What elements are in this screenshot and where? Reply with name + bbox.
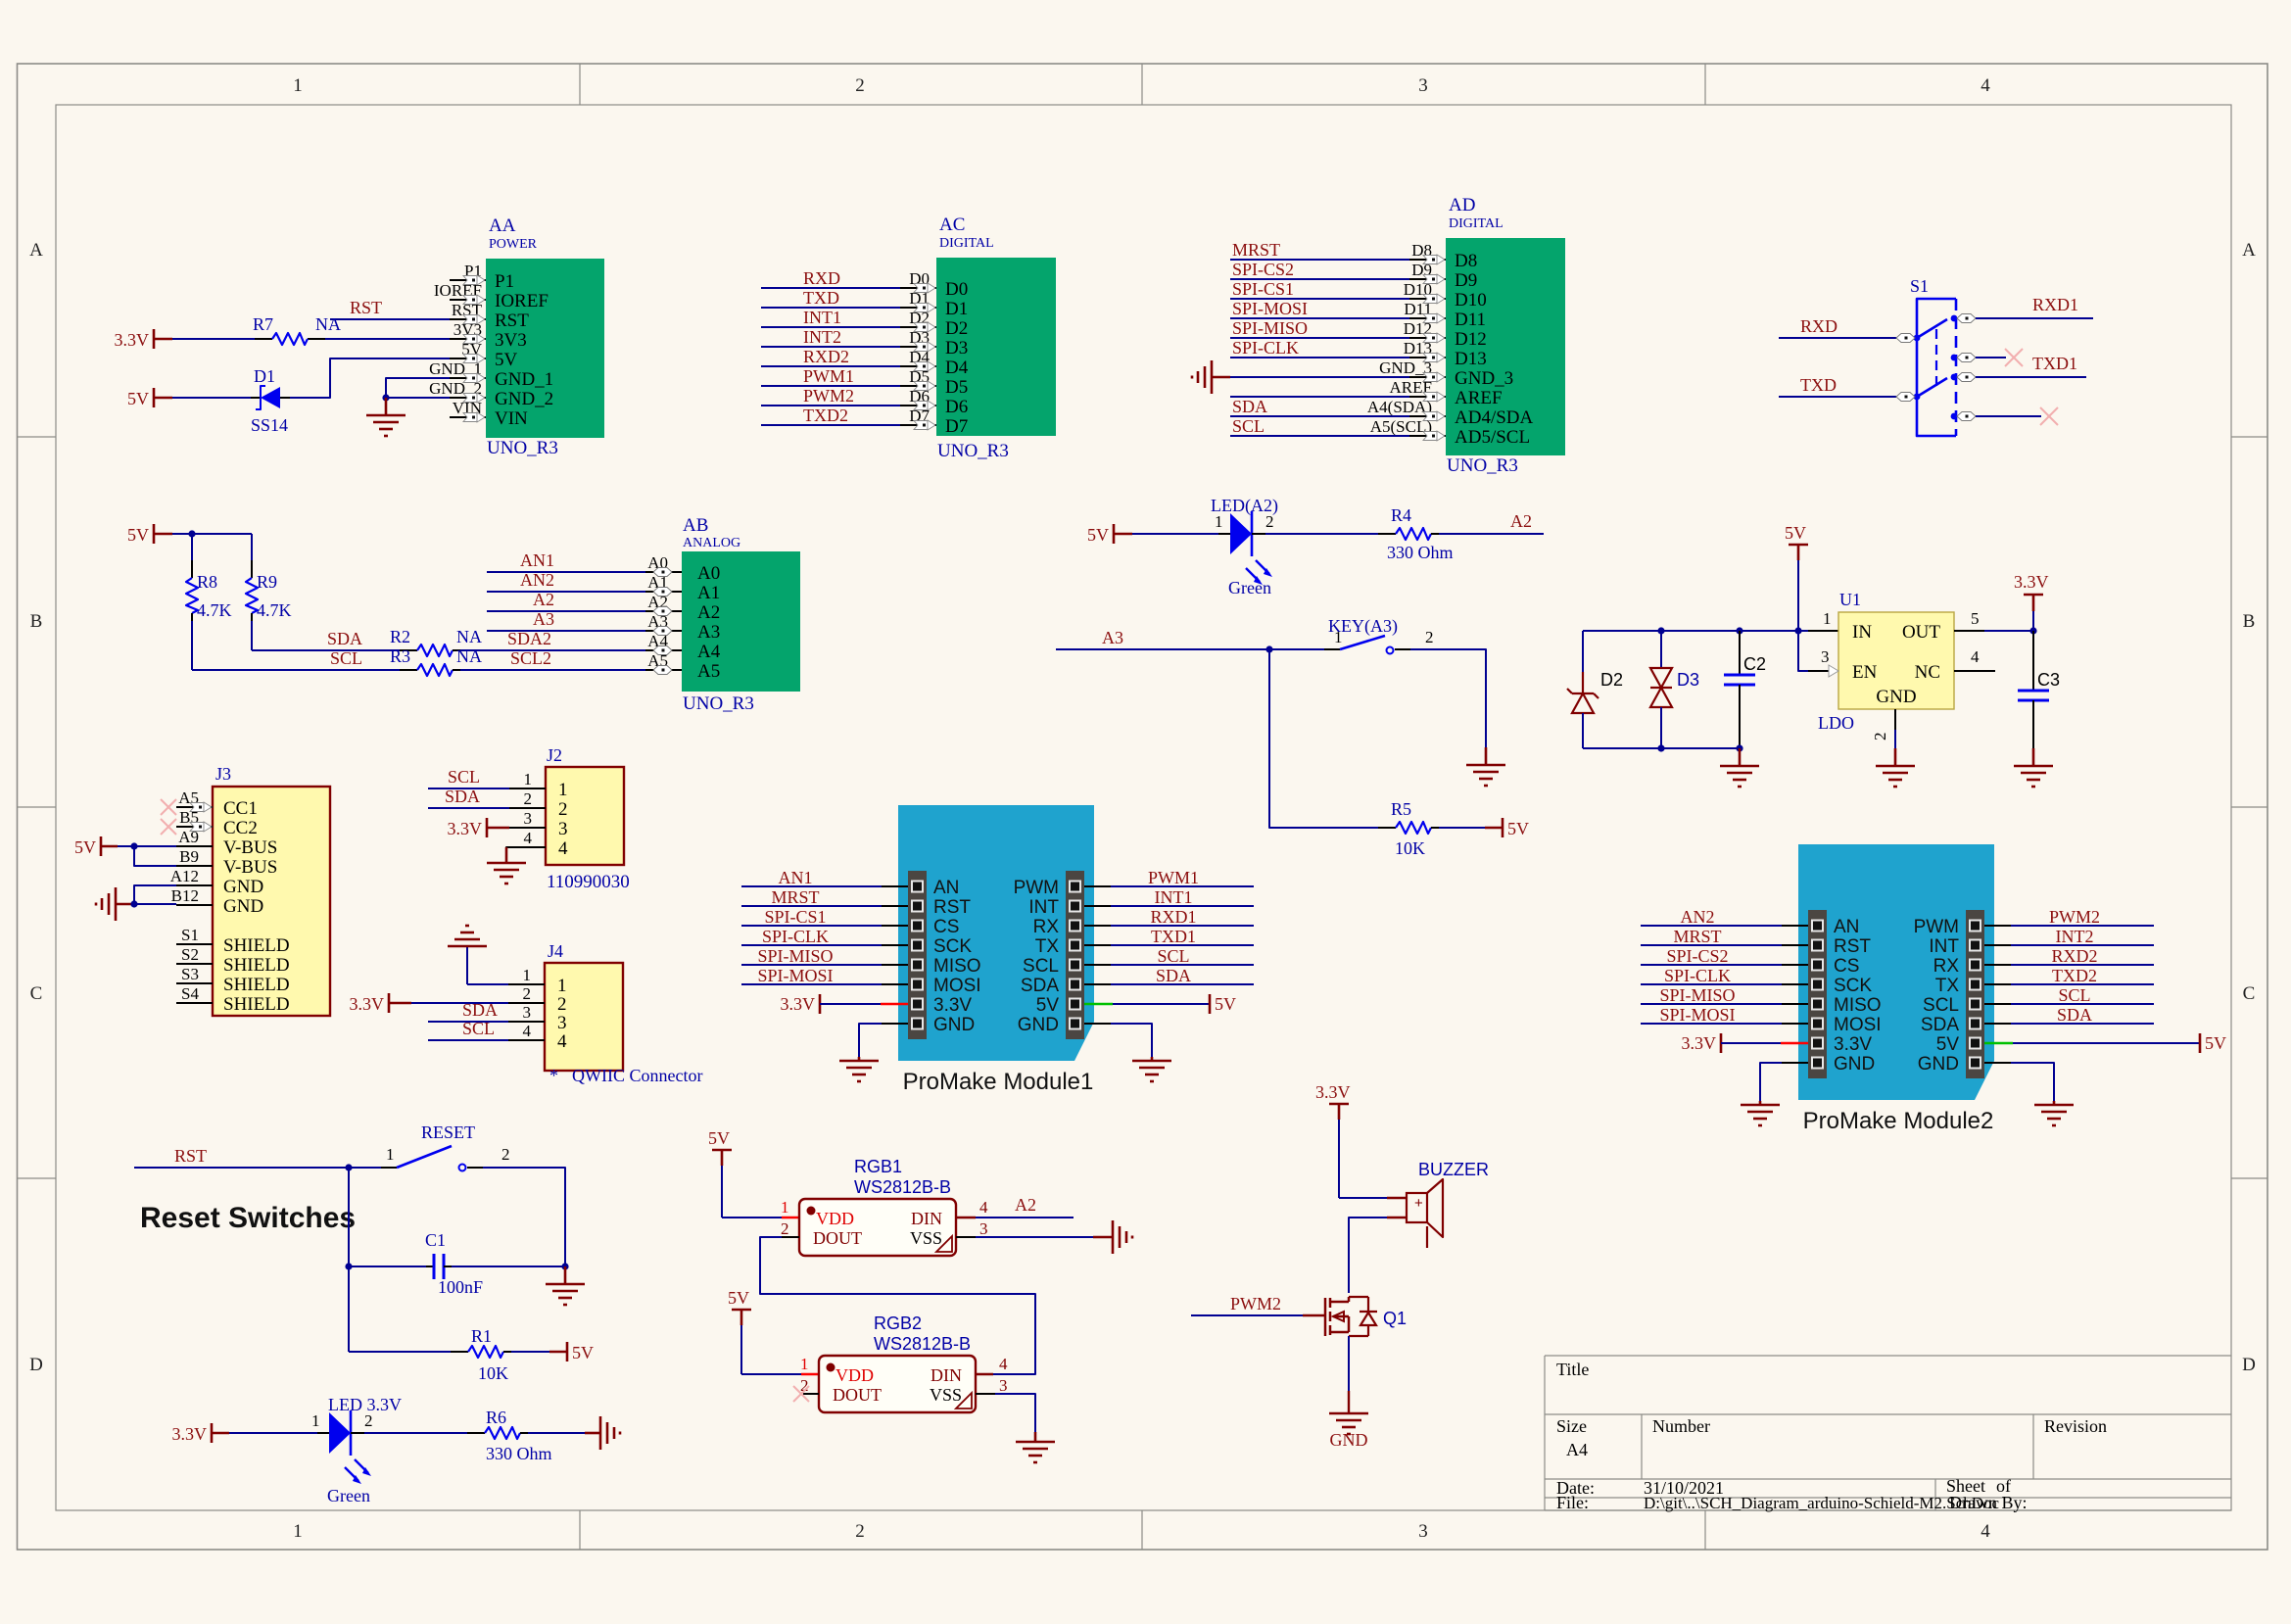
svg-text:R8: R8 (197, 572, 217, 592)
power port 5V (pullups) (127, 524, 172, 545)
power port 5V (Module2) (2200, 1033, 2226, 1053)
wire RST down to R1 (348, 1266, 350, 1352)
svg-text:UNO_R3: UNO_R3 (937, 441, 1009, 461)
wire R6 to earth (520, 1432, 528, 1434)
svg-text:3: 3 (979, 1219, 988, 1238)
svg-text:J2: J2 (547, 745, 562, 765)
svg-text:D2: D2 (1600, 670, 1623, 690)
svg-text:A3: A3 (1102, 628, 1123, 647)
svg-text:A4: A4 (1566, 1440, 1588, 1459)
svg-text:DOUT: DOUT (833, 1385, 882, 1405)
svg-text:3.3V: 3.3V (115, 330, 150, 350)
svg-text:3V3: 3V3 (495, 330, 527, 351)
svg-text:SPI-CLK: SPI-CLK (762, 927, 829, 946)
svg-text:1: 1 (1334, 628, 1343, 646)
svg-text:SDA2: SDA2 (507, 629, 551, 648)
junction A3/R5 (1265, 645, 1272, 652)
power port 3.3V (J4) (350, 993, 412, 1014)
svg-text:SPI-CS1: SPI-CS1 (1232, 279, 1294, 299)
svg-text:INT: INT (1929, 936, 1959, 957)
svg-text:D8: D8 (1455, 251, 1477, 271)
svg-text:1: 1 (293, 75, 303, 96)
svg-text:TXD2: TXD2 (2052, 966, 2097, 985)
wire 3.3V to Module1 (820, 1003, 881, 1005)
svg-text:1: 1 (781, 1198, 789, 1217)
svg-text:4: 4 (999, 1355, 1008, 1373)
svg-text:SDA: SDA (462, 1000, 498, 1020)
svg-text:TXD: TXD (803, 288, 839, 308)
wire 3.3V to Module2 (1721, 1042, 1781, 1044)
svg-text:POWER: POWER (489, 237, 538, 252)
svg-text:RX: RX (1033, 917, 1060, 937)
svg-text:MISO: MISO (1834, 995, 1882, 1016)
wire KEY to GND (1395, 648, 1410, 650)
svg-text:AN2: AN2 (1681, 907, 1715, 927)
svg-text:VSS: VSS (910, 1228, 942, 1248)
svg-text:3.3V: 3.3V (350, 994, 385, 1014)
wire GND A12 (134, 885, 176, 904)
resistor R2 (NA) (390, 627, 482, 656)
wire SPI-MISO to Module2 (1641, 1003, 1782, 1005)
svg-text:WS2812B-B: WS2812B-B (854, 1177, 951, 1197)
connector J2 110990030 (509, 745, 630, 892)
earth ground symbol (R6) (599, 1416, 602, 1450)
svg-text:2: 2 (558, 799, 568, 820)
svg-text:4.7K: 4.7K (197, 600, 232, 620)
svg-text:GND_3: GND_3 (1455, 368, 1513, 389)
svg-text:A2: A2 (533, 590, 554, 609)
svg-text:LDO: LDO (1818, 713, 1854, 733)
wire 5V to RGB2 VDD (740, 1325, 742, 1374)
no-connect X (RGB2 DOUT) (803, 1393, 819, 1395)
wire AN2 to AB A1 (487, 591, 645, 593)
svg-text:SPI-CS2: SPI-CS2 (1666, 946, 1728, 966)
wire 5V to RGB1 VDD (721, 1166, 723, 1218)
wire SCL to AD (1230, 435, 1409, 437)
svg-text:INT1: INT1 (1155, 887, 1193, 907)
wire TXD1 from Module1 (1084, 944, 1111, 946)
switch KEY(A3) (1328, 616, 1434, 654)
wire GND_3 (1212, 376, 1409, 378)
wire SPI-MISO to Module1 (741, 964, 882, 966)
svg-text:4: 4 (979, 1198, 988, 1217)
svg-text:D1: D1 (945, 299, 968, 319)
svg-text:SHIELD: SHIELD (223, 935, 290, 956)
wire SCL to R3 (192, 669, 409, 671)
wire SPI-CS1 to AD (1230, 298, 1409, 300)
wire SPI-MOSI to AD (1230, 317, 1409, 319)
svg-text:5: 5 (1971, 609, 1980, 628)
svg-text:R2: R2 (390, 627, 410, 646)
svg-text:GND: GND (1918, 1054, 1959, 1075)
svg-text:5V: 5V (74, 837, 96, 857)
svg-text:1: 1 (1215, 512, 1223, 531)
svg-text:5V: 5V (127, 525, 149, 545)
svg-text:4: 4 (1981, 1521, 1990, 1542)
voltage regulator U1 LDO (1818, 590, 1980, 740)
svg-text:A3: A3 (697, 622, 720, 643)
svg-text:WS2812B-B: WS2812B-B (874, 1334, 971, 1354)
svg-text:1: 1 (524, 770, 533, 788)
wire SDA to J4 pin3 (428, 1021, 508, 1023)
wire SPI-CS1 to Module1 (741, 925, 882, 927)
svg-text:RXD1: RXD1 (1150, 907, 1196, 927)
wire RGB2 VSS to GND (976, 1393, 995, 1395)
svg-text:AC: AC (939, 215, 965, 235)
svg-text:3: 3 (523, 1003, 532, 1022)
svg-text:SCL: SCL (1923, 995, 1959, 1016)
module ProMake Module1 (898, 805, 1094, 1095)
wire 5V pullup rail (172, 533, 252, 535)
svg-text:D11: D11 (1455, 310, 1486, 330)
svg-text:PWM: PWM (1014, 878, 1059, 898)
junction D3 bottom (1657, 744, 1664, 751)
svg-text:2: 2 (1265, 512, 1274, 531)
svg-text:SPI-CLK: SPI-CLK (1664, 966, 1731, 985)
svg-text:TXD2: TXD2 (803, 406, 848, 425)
wire A2 from R4 (1431, 533, 1439, 535)
svg-text:3: 3 (1418, 75, 1428, 96)
wire D1 to 5V pin (290, 358, 450, 398)
wire PWM2 from Module2 (1984, 925, 2011, 927)
svg-text:SPI-MISO: SPI-MISO (1659, 985, 1735, 1005)
svg-text:S1: S1 (1910, 276, 1929, 296)
svg-text:A: A (29, 240, 43, 261)
connector J3 (USB-C) (170, 764, 330, 1016)
wire 5V to Module2 (1984, 1042, 2013, 1044)
wire SDA to AD (1230, 415, 1409, 417)
svg-text:100nF: 100nF (438, 1277, 483, 1297)
capacitor C2 (1724, 631, 1766, 748)
capacitor C3 (2018, 631, 2060, 748)
power port 3.3V (LDO out) (2014, 572, 2049, 611)
wire RGB1 VSS to earth (956, 1236, 976, 1238)
earth ground symbol (RGB1) (1112, 1220, 1115, 1254)
wire GND to J4 pin1 (467, 983, 508, 985)
svg-text:QWIIC Connector: QWIIC Connector (572, 1066, 702, 1085)
wire input rail (1583, 630, 1808, 632)
svg-text:U1: U1 (1839, 590, 1861, 609)
svg-text:AN1: AN1 (779, 868, 813, 887)
power port 5V (R1) (549, 1342, 594, 1362)
wire MRST to Module1 (741, 905, 882, 907)
svg-text:3.3V: 3.3V (1315, 1082, 1351, 1102)
ground symbol (Q1) (1329, 1413, 1368, 1450)
svg-text:A12: A12 (170, 867, 199, 885)
svg-text:INT1: INT1 (803, 308, 841, 327)
svg-text:Title: Title (1556, 1360, 1589, 1379)
sheet symbol AD UNO_R3 DIGITAL (1367, 195, 1565, 476)
wire RST down to C1 (348, 1168, 350, 1266)
wire AN2 to Module2 (1641, 925, 1782, 927)
ground symbol (C2) (1720, 748, 1759, 787)
power port 5V (D1) (127, 388, 172, 408)
svg-text:A2: A2 (1510, 511, 1532, 531)
svg-text:NC: NC (1915, 662, 1940, 683)
wire SCL from Module1 (1084, 964, 1111, 966)
svg-text:2: 2 (501, 1145, 510, 1164)
svg-text:VDD: VDD (816, 1209, 854, 1228)
svg-text:PWM2: PWM2 (2049, 907, 2100, 927)
wire RXD2 from Module2 (1984, 964, 2011, 966)
wire SPI-MISO to AD (1230, 337, 1409, 339)
svg-text:R7: R7 (253, 314, 273, 334)
wire OUT to 3.3V (1954, 630, 1984, 632)
svg-text:RESET: RESET (421, 1122, 475, 1142)
svg-text:IN: IN (1852, 622, 1872, 643)
wire V-BUS B9 (134, 846, 176, 866)
svg-text:SPI-CS2: SPI-CS2 (1232, 260, 1294, 279)
ground symbol (Module1 right) (1132, 1057, 1171, 1081)
wire 5V to V-BUS (118, 845, 176, 847)
resistor R1 10K (451, 1326, 521, 1383)
svg-text:RXD2: RXD2 (803, 347, 849, 366)
wire 3.3V to J4 pin2 (411, 1002, 508, 1004)
svg-text:3: 3 (999, 1376, 1008, 1395)
svg-text:INT2: INT2 (803, 327, 841, 347)
svg-text:10K: 10K (478, 1363, 508, 1383)
svg-text:AD4/SDA: AD4/SDA (1455, 407, 1534, 428)
svg-text:2: 2 (1871, 733, 1889, 741)
wire AREF stub (1230, 396, 1409, 398)
svg-text:A4: A4 (697, 642, 721, 662)
svg-text:5V: 5V (2205, 1033, 2226, 1053)
junction C1 right (561, 1263, 568, 1269)
svg-text:D1: D1 (254, 366, 275, 386)
wire AN1 to Module1 (741, 885, 882, 887)
svg-text:SS14: SS14 (251, 415, 288, 435)
svg-text:CC1: CC1 (223, 798, 258, 819)
svg-text:Size: Size (1556, 1416, 1587, 1436)
svg-text:NA: NA (315, 314, 341, 334)
wire MRST to AD (1230, 259, 1409, 261)
wire TXD2 from Module2 (1984, 983, 2011, 985)
svg-text:1: 1 (557, 976, 567, 996)
svg-text:GND: GND (1018, 1015, 1059, 1035)
svg-text:C: C (2243, 983, 2256, 1004)
wire RGB1 DIN (A2) (956, 1217, 976, 1218)
svg-text:3: 3 (524, 809, 533, 828)
svg-text:B9: B9 (179, 847, 199, 866)
wire J2 pin4 to GND (506, 847, 509, 862)
wire SCL2 to AB A5 (453, 669, 460, 671)
wire SDA to J2 (428, 807, 509, 809)
svg-text:5V: 5V (1507, 819, 1529, 838)
wire TXD2 to AC (761, 424, 900, 426)
wire 5V to Module1 (1084, 1003, 1113, 1005)
earth ground symbol (GND_3) (1192, 360, 1230, 394)
resistor R7 (NA) (253, 314, 341, 345)
power port 3.3V (LED 3.3V) (172, 1423, 230, 1444)
wire Module1 GND left (882, 1023, 908, 1025)
svg-text:3.3V: 3.3V (448, 819, 483, 838)
svg-text:5V: 5V (1785, 523, 1806, 543)
svg-text:SDA: SDA (1921, 1015, 1959, 1035)
svg-text:+: + (1414, 1195, 1423, 1212)
svg-text:Revision: Revision (2044, 1416, 2107, 1436)
svg-text:D3: D3 (1677, 670, 1699, 690)
svg-text:RST: RST (933, 897, 971, 918)
svg-text:UNO_R3: UNO_R3 (1447, 455, 1518, 476)
svg-text:5V: 5V (708, 1128, 730, 1148)
svg-text:B12: B12 (171, 886, 199, 905)
svg-text:EN: EN (1852, 662, 1878, 683)
wire GND B12 (134, 903, 176, 905)
LED(A2) diode (1211, 496, 1278, 597)
svg-text:1: 1 (293, 1521, 303, 1542)
switch S1 (DPDT) (1910, 276, 1957, 436)
svg-text:UNO_R3: UNO_R3 (487, 438, 558, 458)
svg-text:NA: NA (456, 646, 482, 666)
svg-text:C2: C2 (1743, 654, 1766, 674)
svg-text:IOREF: IOREF (495, 291, 549, 311)
wire INT1 to AC (761, 326, 900, 328)
svg-text:1: 1 (523, 966, 532, 984)
ground symbol (RGB2) (1016, 1432, 1055, 1462)
svg-text:TX: TX (1035, 936, 1060, 957)
svg-text:VSS: VSS (930, 1385, 962, 1405)
resistor R8 4.7K (186, 534, 232, 670)
svg-text:R9: R9 (257, 572, 277, 592)
svg-text:SPI-MOSI: SPI-MOSI (757, 966, 833, 985)
svg-text:SCK: SCK (933, 936, 972, 957)
sheet symbol AB UNO_R3 ANALOG (645, 515, 800, 714)
svg-text:*: * (549, 1066, 558, 1085)
LED driver RGB2 WS2812B-B (800, 1314, 1008, 1412)
svg-text:RGB1: RGB1 (854, 1157, 902, 1176)
wire Module1 GND right (1084, 1023, 1111, 1025)
wire SPI-CLK to AD (1230, 357, 1409, 358)
svg-text:A5(SCL): A5(SCL) (1370, 417, 1432, 436)
svg-text:SHIELD: SHIELD (223, 955, 290, 976)
svg-text:SCL: SCL (1023, 956, 1059, 977)
wire SPI-CLK to Module2 (1641, 983, 1782, 985)
junction D3 top (1657, 627, 1664, 634)
svg-text:D2: D2 (945, 318, 968, 339)
svg-text:RXD: RXD (1800, 316, 1838, 336)
svg-text:P1: P1 (495, 271, 514, 292)
svg-text:3.3V: 3.3V (172, 1424, 208, 1444)
power port 3.3V (Module1) (781, 994, 821, 1014)
wire TXD to S1 (1779, 396, 1896, 398)
svg-text:1: 1 (800, 1355, 809, 1373)
svg-text:1: 1 (311, 1411, 320, 1430)
wire 5V to U1 IN rail (1797, 560, 1799, 631)
svg-text:5V: 5V (1036, 995, 1060, 1016)
svg-text:SPI-MOSI: SPI-MOSI (1232, 299, 1308, 318)
switch RESET (386, 1122, 510, 1171)
svg-text:A2: A2 (697, 602, 720, 623)
power port 3.3V (Module2) (1682, 1033, 1722, 1053)
svg-text:D5: D5 (945, 377, 968, 398)
wire RGB1 DOUT to RGB2 DIN (782, 1236, 799, 1238)
svg-text:SCL: SCL (330, 648, 362, 668)
svg-text:SPI-MISO: SPI-MISO (757, 946, 833, 966)
svg-text:INT: INT (1028, 897, 1059, 918)
svg-text:RST: RST (495, 310, 529, 331)
svg-text:GND: GND (1876, 687, 1916, 707)
svg-text:D7: D7 (945, 416, 968, 437)
svg-text:3.3V: 3.3V (1682, 1033, 1717, 1053)
power port 3.3V (buzzer) (1315, 1082, 1351, 1120)
wire LED 3.3V to R6 (351, 1432, 364, 1434)
svg-text:V-BUS: V-BUS (223, 837, 277, 858)
svg-text:TXD1: TXD1 (1151, 927, 1196, 946)
junction 5V rail (1794, 627, 1801, 634)
wire A3 to R5 (1269, 649, 1388, 828)
svg-text:2: 2 (364, 1411, 373, 1430)
wire LDO bottom rail (1583, 747, 1740, 749)
svg-text:J3: J3 (215, 764, 231, 784)
wire TXD1 from S1 (1957, 373, 1976, 382)
svg-text:AN: AN (933, 878, 959, 898)
wire MRST to Module2 (1641, 944, 1782, 946)
svg-text:SCL2: SCL2 (510, 648, 551, 668)
svg-text:AD: AD (1449, 195, 1475, 215)
svg-text:3.3V: 3.3V (933, 995, 972, 1016)
no-connect X (S1 lower) (2040, 407, 2058, 425)
svg-text:MRST: MRST (771, 887, 819, 907)
svg-text:110990030: 110990030 (547, 872, 630, 892)
ground symbol (C3) (2014, 748, 2053, 787)
svg-text:SDA: SDA (1021, 976, 1059, 996)
svg-text:MISO: MISO (933, 956, 981, 977)
wire RESET pin2 (467, 1167, 483, 1169)
svg-text:GND_2: GND_2 (495, 389, 553, 409)
svg-text:SCL: SCL (1232, 416, 1265, 436)
svg-text:MRST: MRST (1673, 927, 1721, 946)
svg-text:3.3V: 3.3V (781, 994, 816, 1014)
svg-text:RST: RST (350, 298, 382, 317)
svg-text:SCL: SCL (1157, 946, 1189, 966)
svg-text:2: 2 (855, 75, 865, 96)
svg-text:10K: 10K (1395, 838, 1425, 858)
wire 3.3V to buzzer (1338, 1120, 1340, 1198)
svg-text:D: D (2242, 1355, 2256, 1375)
svg-text:R5: R5 (1391, 799, 1411, 819)
svg-text:3: 3 (558, 819, 568, 839)
svg-text:AN: AN (1834, 917, 1859, 937)
svg-text:Drawn By:: Drawn By: (1949, 1493, 2028, 1512)
svg-text:GND: GND (1834, 1054, 1875, 1075)
svg-text:PWM2: PWM2 (803, 386, 854, 406)
svg-text:SCL: SCL (462, 1019, 495, 1038)
svg-text:SDA: SDA (327, 629, 362, 648)
svg-text:D:\git\..\SCH_Diagram_arduino-: D:\git\..\SCH_Diagram_arduino-Schield-M2… (1644, 1494, 2000, 1512)
svg-text:CC2: CC2 (223, 818, 258, 838)
svg-text:4.7K: 4.7K (257, 600, 292, 620)
svg-text:C1: C1 (425, 1230, 446, 1250)
ground symbol (Module2 right) (2034, 1101, 2074, 1125)
wire RST to RESET switch (134, 1167, 381, 1169)
LED driver RGB1 WS2812B-B (781, 1157, 988, 1256)
svg-text:Green: Green (327, 1486, 370, 1505)
title block (1545, 1356, 2231, 1512)
wire RXD1 from S1 (1957, 314, 1976, 323)
wire NC stub (1954, 670, 1995, 672)
sheet symbol AC UNO_R3 DIGITAL (900, 215, 1056, 461)
svg-text:S1: S1 (181, 926, 199, 944)
svg-text:AA: AA (489, 215, 516, 236)
svg-text:GND: GND (1330, 1430, 1368, 1450)
svg-text:AB: AB (683, 515, 708, 536)
sheet symbol AA UNO_R3 POWER (429, 215, 604, 458)
svg-text:AD5/SCL: AD5/SCL (1455, 427, 1530, 448)
wire R1 to 5V (503, 1351, 511, 1353)
svg-text:D6: D6 (945, 397, 968, 417)
svg-text:A2: A2 (1015, 1195, 1036, 1215)
junction RST node (345, 1164, 352, 1170)
